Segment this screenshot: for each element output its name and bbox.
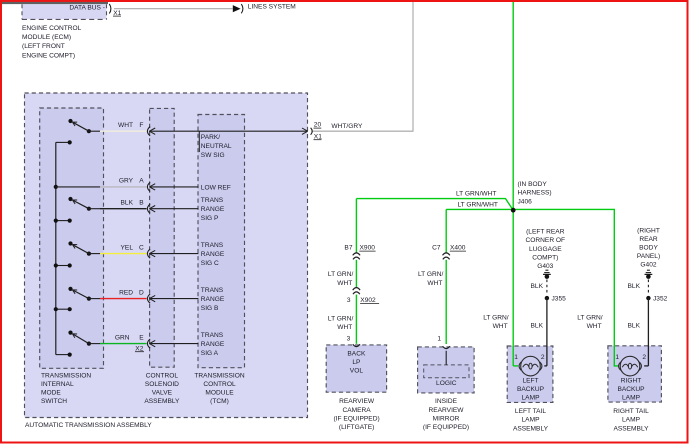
svg-text:20: 20 xyxy=(314,122,322,129)
svg-text:SIG B: SIG B xyxy=(201,305,219,312)
svg-text:CAMERA: CAMERA xyxy=(342,407,371,414)
svg-text:E: E xyxy=(139,334,144,341)
svg-text:ASSEMBLY: ASSEMBLY xyxy=(144,398,180,405)
svg-text:WHT: WHT xyxy=(118,122,133,129)
svg-text:BLK: BLK xyxy=(531,323,544,330)
svg-text:REAR: REAR xyxy=(639,236,658,243)
svg-text:WHT: WHT xyxy=(337,324,352,331)
svg-text:RIGHT TAIL: RIGHT TAIL xyxy=(613,408,649,415)
svg-text:RED: RED xyxy=(119,289,133,296)
svg-text:HARNESS): HARNESS) xyxy=(518,190,552,197)
svg-text:BLK: BLK xyxy=(531,283,544,290)
svg-text:(IF EQUIPPED): (IF EQUIPPED) xyxy=(423,424,469,431)
svg-text:J406: J406 xyxy=(518,199,533,206)
svg-text:CONTROL: CONTROL xyxy=(146,372,179,379)
svg-text:2: 2 xyxy=(642,354,646,361)
svg-text:REARVIEW: REARVIEW xyxy=(339,398,375,405)
svg-text:MODE: MODE xyxy=(41,389,61,396)
svg-text:GRN: GRN xyxy=(115,334,130,341)
svg-text:BLK: BLK xyxy=(121,200,134,207)
svg-text:X900: X900 xyxy=(360,245,376,252)
svg-text:WHT/GRY: WHT/GRY xyxy=(331,123,363,130)
svg-text:G403: G403 xyxy=(537,263,553,270)
svg-text:SWITCH: SWITCH xyxy=(41,398,67,405)
svg-text:TRANS: TRANS xyxy=(201,197,224,204)
svg-text:TRANSMISSION: TRANSMISSION xyxy=(194,372,244,379)
svg-text:3: 3 xyxy=(347,297,351,304)
svg-text:X902: X902 xyxy=(360,297,376,304)
svg-text:(IN BODY: (IN BODY xyxy=(518,181,548,188)
svg-text:WHT: WHT xyxy=(493,323,508,330)
svg-text:D: D xyxy=(139,289,144,296)
svg-text:J355: J355 xyxy=(552,295,567,302)
svg-text:COMPT): COMPT) xyxy=(532,255,558,262)
svg-text:(LEFT REAR: (LEFT REAR xyxy=(526,228,565,235)
svg-text:3: 3 xyxy=(347,336,351,343)
svg-text:GRY: GRY xyxy=(119,178,134,185)
svg-text:SOLENOID: SOLENOID xyxy=(145,381,179,388)
svg-text:BACKUP: BACKUP xyxy=(517,386,545,393)
svg-text:RANGE: RANGE xyxy=(201,296,225,303)
svg-text:INSIDE: INSIDE xyxy=(435,398,458,405)
svg-text:AUTOMATIC TRANSMISSION ASSEMBL: AUTOMATIC TRANSMISSION ASSEMBLY xyxy=(25,422,152,429)
svg-text:BLK: BLK xyxy=(628,323,641,330)
svg-text:VOL: VOL xyxy=(350,368,364,375)
svg-text:PARK/: PARK/ xyxy=(201,134,220,141)
svg-text:TRANS: TRANS xyxy=(201,242,224,249)
svg-text:LAMP: LAMP xyxy=(622,395,641,402)
svg-text:BACK: BACK xyxy=(347,351,366,358)
svg-text:LOW REF: LOW REF xyxy=(201,184,231,191)
svg-text:TRANS: TRANS xyxy=(201,332,224,339)
svg-text:WHT: WHT xyxy=(337,280,352,287)
svg-text:CORNER OF: CORNER OF xyxy=(526,237,566,244)
svg-text:SIG C: SIG C xyxy=(201,260,219,267)
svg-text:RANGE: RANGE xyxy=(201,206,225,213)
svg-text:LT GRN/: LT GRN/ xyxy=(483,315,509,322)
svg-text:YEL: YEL xyxy=(121,244,134,251)
svg-text:BLK: BLK xyxy=(628,283,641,290)
svg-text:NEUTRAL: NEUTRAL xyxy=(201,143,232,150)
svg-text:MODULE: MODULE xyxy=(205,389,234,396)
svg-text:BODY: BODY xyxy=(639,244,658,251)
svg-text:LT GRN/: LT GRN/ xyxy=(577,315,603,322)
svg-text:J352: J352 xyxy=(653,295,668,302)
svg-text:LAMP: LAMP xyxy=(522,417,541,424)
svg-text:SIG P: SIG P xyxy=(201,215,219,222)
svg-text:(RIGHT: (RIGHT xyxy=(637,227,660,234)
svg-text:(LEFT FRONT: (LEFT FRONT xyxy=(22,43,65,50)
svg-text:G402: G402 xyxy=(640,261,656,268)
svg-text:1: 1 xyxy=(514,354,518,361)
svg-text:TRANSMISSION: TRANSMISSION xyxy=(41,372,91,379)
svg-text:C: C xyxy=(139,244,144,251)
svg-text:ASSEMBLY: ASSEMBLY xyxy=(513,425,549,432)
svg-text:(LIFTGATE): (LIFTGATE) xyxy=(339,424,374,431)
svg-text:LINES SYSTEM: LINES SYSTEM xyxy=(248,4,296,11)
svg-text:MODULE (ECM): MODULE (ECM) xyxy=(22,34,71,41)
svg-text:RANGE: RANGE xyxy=(201,341,225,348)
svg-text:LP: LP xyxy=(352,359,361,366)
svg-text:LT GRN/WHT: LT GRN/WHT xyxy=(456,190,496,197)
svg-text:SIG A: SIG A xyxy=(201,350,219,357)
svg-text:BACKUP: BACKUP xyxy=(617,386,645,393)
svg-text:X400: X400 xyxy=(450,245,466,252)
svg-text:LT GRN/: LT GRN/ xyxy=(328,315,354,322)
svg-text:RANGE: RANGE xyxy=(201,251,225,258)
svg-text:(TCM): (TCM) xyxy=(210,398,229,405)
svg-text:ENGINE CONTROL: ENGINE CONTROL xyxy=(22,25,82,32)
svg-text:RIGHT: RIGHT xyxy=(621,378,642,385)
svg-text:CONTROL: CONTROL xyxy=(203,381,236,388)
svg-text:LT GRN/: LT GRN/ xyxy=(328,271,354,278)
svg-text:LAMP: LAMP xyxy=(622,417,641,424)
svg-text:LEFT TAIL: LEFT TAIL xyxy=(515,408,546,415)
svg-text:B7: B7 xyxy=(344,245,352,252)
svg-text:A: A xyxy=(139,178,144,185)
svg-text:LUGGAGE: LUGGAGE xyxy=(529,246,562,253)
svg-text:X1: X1 xyxy=(314,133,322,140)
svg-text:PANEL): PANEL) xyxy=(637,253,660,260)
svg-text:1: 1 xyxy=(615,354,619,361)
svg-text:INTERNAL: INTERNAL xyxy=(41,381,74,388)
svg-text:LT GRN/WHT: LT GRN/WHT xyxy=(458,202,498,209)
svg-text:C7: C7 xyxy=(432,245,441,252)
svg-text:1: 1 xyxy=(437,336,441,343)
svg-text:REARVIEW: REARVIEW xyxy=(428,407,464,414)
svg-text:TRANS: TRANS xyxy=(201,287,224,294)
svg-text:SW SIG: SW SIG xyxy=(201,152,225,159)
svg-text:VALVE: VALVE xyxy=(152,389,173,396)
svg-text:ASSEMBLY: ASSEMBLY xyxy=(613,425,649,432)
svg-text:B: B xyxy=(139,200,144,207)
svg-text:F: F xyxy=(139,122,143,129)
svg-text:(IF EQUIPPED): (IF EQUIPPED) xyxy=(334,415,380,422)
svg-text:DATA BUS -: DATA BUS - xyxy=(69,5,105,12)
svg-text:LT GRN/: LT GRN/ xyxy=(418,271,444,278)
svg-text:WHT: WHT xyxy=(587,323,602,330)
svg-text:LOGIC: LOGIC xyxy=(436,380,457,387)
svg-text:ENGINE COMPT): ENGINE COMPT) xyxy=(22,52,75,59)
svg-text:LAMP: LAMP xyxy=(522,395,541,402)
svg-text:2: 2 xyxy=(541,354,545,361)
svg-text:WHT: WHT xyxy=(427,280,442,287)
svg-text:LEFT: LEFT xyxy=(522,378,538,385)
svg-text:MIRROR: MIRROR xyxy=(433,415,460,422)
